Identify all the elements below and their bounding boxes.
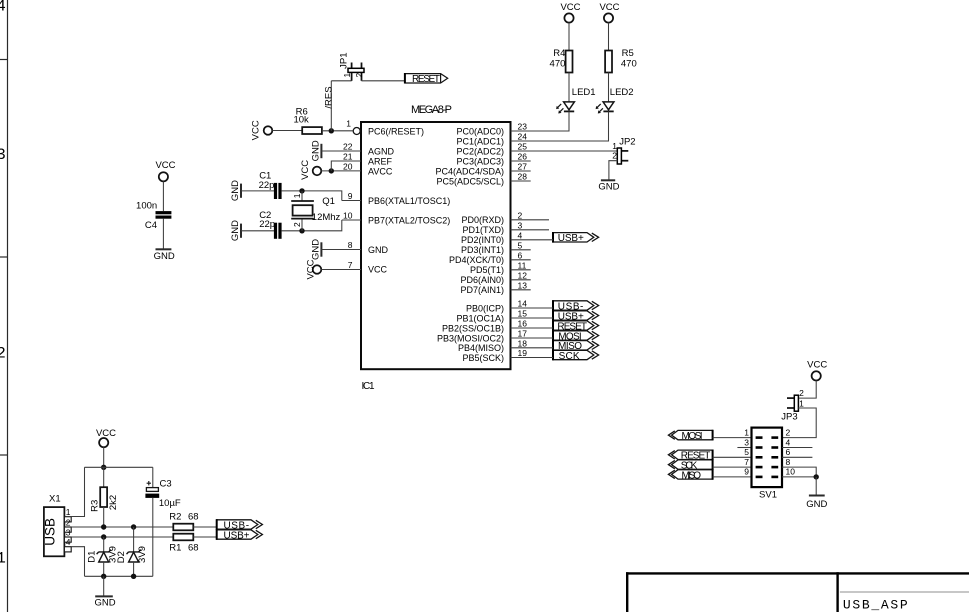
svg-text:R3: R3 <box>89 500 100 512</box>
svg-text:GND: GND <box>230 180 241 201</box>
svg-text:2: 2 <box>799 388 804 398</box>
svg-text:12: 12 <box>518 270 528 280</box>
node D1/D+ junction <box>101 534 106 539</box>
svg-text:2: 2 <box>0 344 6 362</box>
svg-text:PC2(ADC2): PC2(ADC2) <box>456 146 504 156</box>
VCC supply above R4 <box>560 2 580 23</box>
net flag MISO at SV1 pin9 <box>668 469 712 481</box>
svg-text:PD6(AIN0): PD6(AIN0) <box>460 275 504 285</box>
svg-text:3: 3 <box>66 528 71 538</box>
svg-text:R4: R4 <box>553 48 565 59</box>
net flag MISO at pin18 <box>553 340 599 352</box>
svg-text:1: 1 <box>346 119 351 129</box>
svg-text:470: 470 <box>550 59 566 70</box>
ground below X1 <box>94 596 115 608</box>
ground below JP2 <box>598 180 619 192</box>
node GND rail D1 <box>101 574 106 579</box>
wire SV1 pin4 stub <box>782 447 812 449</box>
svg-text:2k2: 2k2 <box>108 495 119 510</box>
net flag USB+ at R1 <box>217 529 263 541</box>
resistor R2 68 <box>169 512 198 531</box>
LED1 <box>556 87 595 113</box>
svg-text:PD1(TXD): PD1(TXD) <box>462 225 504 235</box>
svg-text:2: 2 <box>66 518 71 528</box>
wire VCC to JP3 pin2 <box>797 381 816 399</box>
wire VCC down <box>103 447 105 467</box>
svg-text:6: 6 <box>518 250 523 260</box>
svg-text:IC1: IC1 <box>362 381 375 392</box>
crystal Q1 12Mhz <box>291 193 340 227</box>
svg-text:12Mhz: 12Mhz <box>312 212 341 223</box>
wire pin14 to flag <box>511 307 554 309</box>
svg-text:VCC: VCC <box>368 265 388 275</box>
svg-text:PD4(XCK/T0): PD4(XCK/T0) <box>449 255 504 265</box>
svg-text:23: 23 <box>518 122 528 132</box>
svg-text:4: 4 <box>786 437 791 447</box>
svg-text:100n: 100n <box>136 200 157 211</box>
svg-text:USB+: USB+ <box>558 233 584 244</box>
svg-text:SCK: SCK <box>559 351 580 362</box>
svg-text:19: 19 <box>518 348 528 358</box>
svg-text:PC6(/RESET): PC6(/RESET) <box>368 126 424 136</box>
svg-text:JP1: JP1 <box>338 53 349 69</box>
svg-text:13: 13 <box>518 280 528 290</box>
svg-text:6: 6 <box>786 447 791 457</box>
node XTAL1 junction <box>299 188 304 193</box>
svg-text:28: 28 <box>518 172 528 182</box>
svg-text:X1: X1 <box>49 494 61 505</box>
svg-text:PC5(ADC5/SCL): PC5(ADC5/SCL) <box>436 176 504 186</box>
frame tick row4/3 <box>0 59 8 61</box>
VCC supply at JP3 <box>807 360 827 381</box>
svg-text:22: 22 <box>343 142 353 152</box>
node SV1 GND junction <box>814 474 819 479</box>
node XTAL2 junction <box>299 228 304 233</box>
wire JP3 pin1 to SV1 pin2 <box>782 408 816 438</box>
svg-text:10: 10 <box>343 211 353 221</box>
net flag MOSI at pin17 <box>553 330 599 342</box>
svg-text:VCC: VCC <box>807 360 827 371</box>
VCC supply at R6 <box>250 120 272 140</box>
jumper JP2 <box>612 137 635 164</box>
capacitor C4 100n <box>136 200 171 231</box>
svg-text:7: 7 <box>744 457 749 467</box>
wire MOSI to SV1 pin1 <box>713 437 752 439</box>
svg-text:21: 21 <box>343 152 353 162</box>
wire C1 to pin9 <box>282 191 342 201</box>
svg-text:PB3(MOSI/OC2): PB3(MOSI/OC2) <box>437 333 504 343</box>
wire C2 to pin10 <box>282 220 342 231</box>
svg-text:68: 68 <box>188 542 199 553</box>
wire rail to GND symbol <box>103 576 105 596</box>
svg-text:4: 4 <box>66 537 71 547</box>
svg-text:PD0(RXD): PD0(RXD) <box>461 215 504 225</box>
svg-text:1: 1 <box>342 73 352 78</box>
svg-text:PB1(OC1A): PB1(OC1A) <box>456 313 504 323</box>
wire C3 to GND rail <box>152 498 154 577</box>
svg-text:PC0(ADC0): PC0(ADC0) <box>456 126 504 136</box>
wire VCC rail <box>85 466 153 468</box>
svg-text:PC3(ADC3): PC3(ADC3) <box>456 156 504 166</box>
resistor R1 68 <box>169 534 198 554</box>
resistor R5 470 <box>605 48 637 73</box>
svg-text:24: 24 <box>518 132 528 142</box>
svg-text:C4: C4 <box>145 220 157 231</box>
svg-text:PB0(ICP): PB0(ICP) <box>466 303 504 313</box>
net flag RESET (top) <box>405 73 448 85</box>
wire AGND <box>321 150 361 152</box>
svg-text:68: 68 <box>188 512 199 523</box>
svg-text:PD7(AIN1): PD7(AIN1) <box>460 285 504 295</box>
node AVCC junction <box>329 168 334 173</box>
svg-text:7: 7 <box>348 260 353 270</box>
svg-text:PB5(SCK): PB5(SCK) <box>462 353 504 363</box>
svg-text:1: 1 <box>66 507 71 517</box>
connector X1 USB <box>43 494 72 557</box>
diode D1 3V9 zener <box>86 537 118 576</box>
wire AREF pin21 <box>331 161 361 171</box>
svg-text:GND: GND <box>598 181 619 192</box>
ground below SV1 <box>806 496 827 510</box>
jumper JP3 <box>781 388 804 423</box>
svg-text:1: 1 <box>744 427 749 437</box>
svg-text:GND: GND <box>806 499 827 510</box>
wire GND pin8 <box>321 249 361 251</box>
wire SV1 pin8 to GND node <box>782 467 816 477</box>
wire GND to C1 <box>241 190 274 192</box>
svg-text:AVCC: AVCC <box>368 166 393 176</box>
svg-text:14: 14 <box>518 299 528 309</box>
wire LED2 to pin24 <box>511 111 609 141</box>
wire pin19 to flag <box>511 357 554 359</box>
wire node to crystal pin2 <box>301 219 303 231</box>
svg-text:22p: 22p <box>259 219 275 230</box>
svg-text:GND: GND <box>154 251 175 262</box>
svg-text:470: 470 <box>621 59 637 70</box>
node VCC rail junction <box>101 465 106 470</box>
net flag USB- at pin14 <box>553 300 599 312</box>
wire R2 to flag <box>193 526 216 528</box>
frame tick row2/1 <box>0 454 8 456</box>
svg-text:PD2(INT0): PD2(INT0) <box>461 235 504 245</box>
svg-text:11: 11 <box>518 260 527 270</box>
svg-text:USB+: USB+ <box>224 530 250 541</box>
svg-text:10: 10 <box>786 467 796 477</box>
ground at C2 <box>230 220 241 241</box>
wire R4 to LED1 <box>568 73 570 102</box>
net flag RESET at SV1 pin5 <box>668 450 712 462</box>
wire pin18 to flag <box>511 347 554 349</box>
svg-text:LED2: LED2 <box>610 87 634 98</box>
title block <box>626 572 969 612</box>
wire MISO to SV1 pin9 <box>713 476 752 478</box>
svg-text:R2: R2 <box>169 512 181 523</box>
svg-text:1: 1 <box>612 141 617 151</box>
svg-text:3: 3 <box>744 437 749 447</box>
svg-text:5: 5 <box>744 447 749 457</box>
svg-text:1: 1 <box>0 550 6 568</box>
VCC supply at AVCC <box>300 160 321 180</box>
node R3/D- junction <box>101 524 106 529</box>
svg-text:2: 2 <box>518 210 523 220</box>
capacitor C3 10uF <box>145 479 181 509</box>
net flag MOSI at SV1 pin1 <box>668 430 712 442</box>
svg-text:27: 27 <box>518 162 528 172</box>
svg-text:GND: GND <box>94 597 115 608</box>
node GND rail D2 <box>131 574 136 579</box>
svg-text:C3: C3 <box>160 479 172 490</box>
svg-text:PB2(SS/OC1B): PB2(SS/OC1B) <box>442 323 504 333</box>
wire SV1 pin10 to GND node <box>782 476 816 478</box>
svg-text:USB: USB <box>43 518 58 546</box>
jumper JP1 <box>338 53 364 81</box>
node D2/D- junction <box>131 524 136 529</box>
VCC supply at X1 <box>96 428 116 447</box>
svg-text:R5: R5 <box>622 48 634 59</box>
node /RES junction <box>329 128 334 133</box>
svg-text:D1: D1 <box>86 551 97 563</box>
svg-text:2: 2 <box>292 222 302 227</box>
net flag USB+ at pin15 <box>553 310 599 322</box>
svg-text:USB_ASP: USB_ASP <box>843 597 910 612</box>
net flag USB- at R2 <box>217 519 263 531</box>
svg-text:VCC: VCC <box>599 2 619 13</box>
wire JP1 pin2 to RESET flag <box>362 80 405 82</box>
wire pin25 to JP2 <box>511 150 618 152</box>
VCC supply at C4 <box>155 160 175 181</box>
IC1 right pin numbers <box>518 122 528 359</box>
svg-text:GND: GND <box>311 239 322 260</box>
IC1 right pin names <box>435 126 504 363</box>
wire node to JP1 pin1 <box>331 80 351 82</box>
svg-text:4: 4 <box>518 230 523 240</box>
IC1 pin 1 inversion circle <box>353 128 360 135</box>
svg-text:GND: GND <box>311 140 322 161</box>
VCC supply at pin7 <box>305 259 321 279</box>
resistor R4 470 <box>550 48 573 73</box>
svg-text:VCC: VCC <box>96 428 116 439</box>
svg-text:15: 15 <box>518 309 528 319</box>
wire VCC to R6 <box>272 130 302 132</box>
svg-text:VCC: VCC <box>155 160 175 171</box>
svg-text:VCC: VCC <box>305 259 316 279</box>
wire R1 to flag <box>193 536 216 538</box>
wire SV1 pin3 stub <box>737 447 751 449</box>
svg-text:3: 3 <box>0 146 6 164</box>
svg-text:SV1: SV1 <box>759 489 777 500</box>
wire C4 to GND <box>162 219 164 250</box>
svg-text:5: 5 <box>518 240 523 250</box>
svg-text:17: 17 <box>518 329 528 339</box>
capacitor C1 22p <box>259 170 282 199</box>
wire rail to USB pin1 <box>72 467 85 516</box>
svg-text:PC1(ADC1): PC1(ADC1) <box>456 136 504 146</box>
svg-text:D2: D2 <box>116 551 127 563</box>
svg-text:PB4(MISO): PB4(MISO) <box>458 343 504 353</box>
wire LED1 to pin23 <box>511 111 570 131</box>
svg-text:Q1: Q1 <box>322 196 335 207</box>
wire pin4 to flag <box>511 239 554 241</box>
svg-text:10k: 10k <box>293 115 309 126</box>
svg-text:9: 9 <box>744 467 749 477</box>
ground below C4 <box>154 249 175 261</box>
wire X1 pin2 D- row <box>72 526 174 528</box>
wire X1 pin3 D+ row <box>72 536 174 538</box>
wire JP2 pin2 to GND <box>609 161 618 181</box>
svg-text:22p: 22p <box>259 180 275 191</box>
svg-text:R1: R1 <box>169 542 181 553</box>
wire RESET to SV1 pin5 <box>713 456 752 458</box>
wire SV1 pin6 stub <box>782 456 812 458</box>
svg-text:9: 9 <box>348 191 353 201</box>
svg-text:20: 20 <box>343 162 353 172</box>
svg-text:AGND: AGND <box>368 146 395 156</box>
wire VCC to R4 <box>568 23 570 51</box>
IC1 left pin names <box>368 126 450 274</box>
svg-text:2: 2 <box>354 73 364 78</box>
svg-text:PC4(ADC4/SDA): PC4(ADC4/SDA) <box>435 166 504 176</box>
svg-text:8: 8 <box>348 240 353 250</box>
svg-text:25: 25 <box>518 142 528 152</box>
wire GND to C2 <box>241 230 274 232</box>
svg-text:LED1: LED1 <box>572 87 596 98</box>
svg-text:GND: GND <box>368 245 389 255</box>
svg-text:/RES: /RES <box>324 86 335 108</box>
svg-text:2: 2 <box>786 427 791 437</box>
svg-text:PD3(INT1): PD3(INT1) <box>461 245 504 255</box>
frame left border line <box>7 0 9 612</box>
wire node to GND symbol <box>815 477 817 496</box>
IC1 left pin stubs <box>342 201 361 221</box>
svg-text:PB6(XTAL1/TOSC1): PB6(XTAL1/TOSC1) <box>368 196 450 206</box>
frame tick row3/2 <box>0 256 8 258</box>
svg-text:3V9: 3V9 <box>137 546 148 563</box>
net flag USB+ at pin4 <box>553 232 599 244</box>
wire R6 to pin1 node <box>322 130 353 132</box>
svg-text:VCC: VCC <box>560 2 580 13</box>
wire rail to C3 <box>152 467 154 489</box>
connector SV1 ISP header <box>744 427 795 500</box>
IC1 right pin stubs n/c <box>511 161 550 290</box>
IC1 left pin numbers <box>343 119 353 270</box>
net flag SCK at pin19 <box>553 350 599 362</box>
wire VCC to C4 <box>162 181 164 211</box>
svg-text:2: 2 <box>612 151 617 161</box>
svg-text:PD5(T1): PD5(T1) <box>470 265 504 275</box>
svg-text:1: 1 <box>799 398 804 408</box>
svg-text:AREF: AREF <box>368 156 393 166</box>
svg-text:10µF: 10µF <box>159 498 181 509</box>
svg-text:18: 18 <box>518 338 528 348</box>
capacitor C2 22p <box>259 210 281 239</box>
wire VCC pin7 <box>321 269 361 271</box>
resistor R3 2k2 <box>89 487 119 512</box>
svg-text:16: 16 <box>518 319 528 329</box>
svg-text:VCC: VCC <box>300 160 311 180</box>
svg-text:MOSI: MOSI <box>682 431 703 442</box>
wire VCC to R5 <box>608 23 610 51</box>
wire rail to R3 <box>103 467 105 487</box>
wire pin17 to flag <box>511 337 554 339</box>
svg-text:26: 26 <box>518 152 528 162</box>
net flag SCK at SV1 pin7 <box>668 459 712 471</box>
svg-text:MEGA8-P: MEGA8-P <box>411 104 452 116</box>
svg-text:JP3: JP3 <box>781 412 797 423</box>
wire GND rail <box>85 575 153 577</box>
wire pin15 to flag <box>511 317 554 319</box>
ground at C1 <box>230 180 241 201</box>
svg-text:8: 8 <box>786 457 791 467</box>
wire node to crystal pin1 <box>301 191 303 201</box>
resistor R6 10k <box>293 106 321 134</box>
wire AVCC pin20 <box>321 170 361 172</box>
svg-text:MISO: MISO <box>682 470 702 481</box>
diode D2 3V9 zener <box>116 527 148 576</box>
VCC supply above R5 <box>599 2 619 23</box>
wire /RES vertical <box>330 81 332 131</box>
svg-text:3: 3 <box>518 220 523 230</box>
ground at pin22 AGND <box>311 140 322 161</box>
wire pin16 to flag <box>511 327 554 329</box>
svg-text:GND: GND <box>230 220 241 241</box>
svg-text:RESET: RESET <box>412 74 440 85</box>
wire SCK to SV1 pin7 <box>713 466 752 468</box>
svg-text:4: 4 <box>0 0 6 16</box>
ground at pin8 <box>311 239 322 260</box>
wire X1 pin4 to GND rail <box>72 547 85 577</box>
svg-text:VCC: VCC <box>250 120 261 140</box>
wire R5 to LED2 <box>608 73 610 102</box>
svg-text:1: 1 <box>292 193 302 198</box>
svg-text:JP2: JP2 <box>619 137 635 148</box>
wire R3 to D- row <box>103 507 105 527</box>
svg-text:PB7(XTAL2/TOSC2): PB7(XTAL2/TOSC2) <box>368 215 450 225</box>
LED2 <box>596 87 634 113</box>
net flag RESET at pin16 <box>553 320 599 332</box>
op IC1 ATmega8 body <box>361 104 511 392</box>
